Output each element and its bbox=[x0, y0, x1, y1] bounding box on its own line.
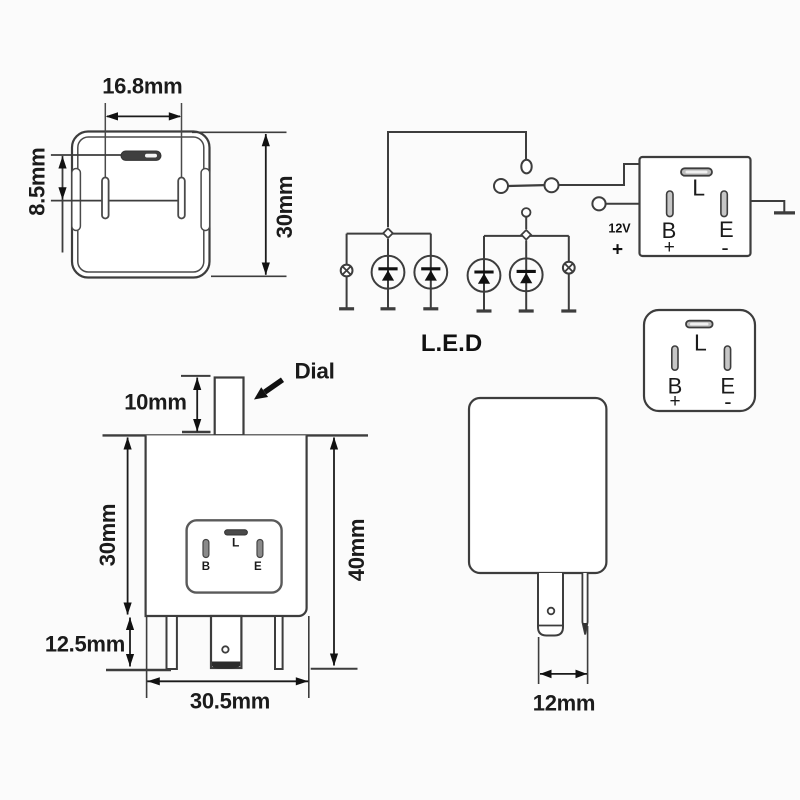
blade pin bbox=[582, 573, 587, 635]
pinout pin B slot bbox=[672, 346, 678, 370]
switch blade wire bbox=[508, 184, 545, 187]
relay body side view bbox=[146, 435, 307, 616]
svg-text:E: E bbox=[254, 561, 262, 573]
leader line lower (pin B/E row) bbox=[51, 200, 182, 202]
dim 30mm line bbox=[262, 134, 270, 275]
switch contact left bbox=[494, 179, 508, 193]
svg-text:10mm: 10mm bbox=[124, 390, 186, 415]
wire: flasher to ground bbox=[751, 201, 785, 212]
svg-text:L: L bbox=[692, 174, 705, 200]
pin 2 hole bbox=[222, 646, 228, 652]
svg-text:-: - bbox=[721, 235, 728, 260]
wire: LED D4 branch bbox=[525, 241, 527, 312]
dim 30mm extension line top bbox=[192, 131, 287, 133]
U1 pin L slot bbox=[681, 168, 712, 175]
pinout L slot bbox=[686, 321, 713, 328]
svg-text:+: + bbox=[664, 237, 675, 258]
ground D1 bbox=[381, 307, 396, 310]
dim 12.5mm extension bbox=[106, 669, 171, 671]
ground D2 bbox=[423, 307, 438, 310]
pin E slot bbox=[178, 178, 185, 219]
wide pin inner line bbox=[538, 625, 563, 627]
svg-text:8.5mm: 8.5mm bbox=[25, 148, 50, 216]
wire: lower contact to node B bbox=[525, 217, 527, 229]
svg-text:+: + bbox=[612, 240, 623, 261]
LED D3 bbox=[468, 259, 501, 292]
svg-text:30.5mm: 30.5mm bbox=[190, 689, 270, 714]
dim 16.8mm extension line left bbox=[104, 103, 106, 178]
dim 10mm bottom tick bbox=[182, 431, 211, 434]
wire: bus group 2 bbox=[484, 235, 569, 237]
dim 40mm extension bbox=[311, 668, 358, 670]
dial pointer arrow bbox=[254, 380, 283, 400]
pin 1 left bbox=[167, 616, 177, 669]
dim 30mm extension line bottom bbox=[211, 275, 287, 277]
wire: top feed bbox=[388, 132, 526, 227]
svg-text:L: L bbox=[232, 536, 239, 550]
pin L slot (top) bbox=[121, 151, 161, 160]
LED D2 bbox=[414, 256, 447, 289]
switch lower contact bbox=[522, 208, 531, 217]
pin 3 right bbox=[275, 616, 283, 669]
ground chassis bar bbox=[774, 211, 795, 214]
lamp LP2 bbox=[563, 262, 575, 274]
wire: LED D1 branch bbox=[387, 239, 389, 309]
dial knob bbox=[215, 378, 244, 436]
wire: lamp 2 branch bbox=[568, 236, 570, 311]
dim 10mm line bbox=[193, 378, 201, 432]
svg-text:12mm: 12mm bbox=[533, 691, 595, 716]
dim 30.5mm line bbox=[147, 677, 308, 685]
U1 pin B slot bbox=[667, 191, 673, 217]
svg-text:B: B bbox=[202, 561, 210, 573]
wide pin hole bbox=[548, 608, 555, 615]
svg-text:L: L bbox=[694, 330, 707, 356]
svg-text:30mm: 30mm bbox=[272, 176, 297, 238]
relay bottom view inner case line bbox=[78, 137, 204, 272]
flasher unit U1 case bbox=[640, 157, 751, 256]
LED D1 bbox=[372, 256, 405, 289]
ground lamp1 bbox=[339, 307, 354, 310]
lamp LP1 bbox=[341, 265, 353, 277]
svg-text:Dial: Dial bbox=[294, 358, 334, 383]
dim 16.8mm arrow line bbox=[106, 112, 182, 120]
node A junction diamond bbox=[383, 228, 393, 238]
wide terminal pin bbox=[538, 573, 563, 636]
svg-text:-: - bbox=[724, 389, 731, 414]
wire: LED D2 branch bbox=[430, 234, 432, 309]
switch fixed contact bbox=[521, 160, 531, 174]
pin 2 center bbox=[211, 616, 241, 668]
body top line bbox=[103, 434, 369, 436]
connector face bbox=[187, 520, 282, 592]
relay bottom view outer case bbox=[72, 132, 210, 278]
node B junction diamond bbox=[521, 230, 531, 240]
face B slot bbox=[203, 540, 209, 558]
right edge groove bbox=[201, 169, 210, 231]
dim 40mm line bbox=[330, 437, 338, 666]
dim 30.5mm extension right bbox=[308, 616, 310, 698]
wire: bus group 1 bbox=[347, 233, 431, 235]
leader line upper (pin L row) bbox=[51, 154, 121, 156]
ground lamp2 bbox=[561, 309, 576, 312]
wire: switch to flasher bbox=[559, 164, 640, 185]
svg-text:16.8mm: 16.8mm bbox=[102, 74, 182, 99]
dim 12mm line bbox=[540, 670, 587, 679]
svg-text:30mm: 30mm bbox=[95, 504, 120, 566]
LED D4 bbox=[510, 258, 543, 291]
svg-text:L.E.D: L.E.D bbox=[421, 330, 482, 357]
dim 12mm extension right bbox=[587, 626, 589, 684]
relay pinout case bbox=[644, 310, 755, 411]
dim 10mm top tick bbox=[181, 375, 211, 377]
wire: terminal to flasher bbox=[606, 203, 640, 205]
pin B slot bbox=[102, 178, 109, 219]
pin 2 tip shading bbox=[212, 662, 240, 669]
relay front body bbox=[469, 398, 606, 573]
dim 30.5mm extension left bbox=[146, 616, 148, 698]
dim 16.8mm extension line right bbox=[181, 103, 183, 178]
face E slot bbox=[257, 540, 263, 558]
dim 30mm side line bbox=[124, 437, 132, 615]
face L slot bbox=[225, 530, 248, 535]
ground D3 bbox=[477, 309, 492, 312]
svg-text:12V: 12V bbox=[608, 221, 631, 235]
U1 pin E slot bbox=[721, 191, 727, 217]
svg-text:12.5mm: 12.5mm bbox=[45, 632, 125, 657]
wire: LED D3 branch bbox=[483, 236, 485, 311]
blade tip shading bbox=[583, 623, 588, 634]
switch contact right bbox=[545, 178, 559, 192]
wire: lamp 1 branch bbox=[346, 234, 348, 309]
ground D4 bbox=[519, 309, 534, 312]
dim 12mm extension left bbox=[538, 637, 540, 684]
pinout pin E slot bbox=[724, 346, 730, 370]
dim 8.5mm line bbox=[58, 156, 66, 253]
svg-text:40mm: 40mm bbox=[344, 519, 369, 581]
dim 12.5mm line bbox=[126, 618, 134, 667]
svg-text:+: + bbox=[669, 391, 680, 412]
left edge groove bbox=[72, 169, 81, 231]
battery terminal bbox=[592, 197, 605, 210]
